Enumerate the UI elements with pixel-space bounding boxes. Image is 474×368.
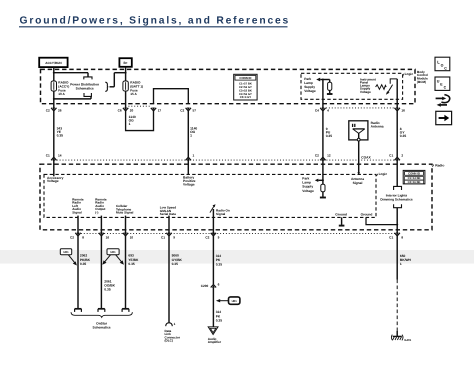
svg-text:Ground: Ground — [335, 212, 347, 216]
connector BCM exit C4 pin 4 — [315, 108, 329, 113]
svg-text:1: 1 — [129, 122, 131, 126]
svg-text:57: 57 — [193, 109, 197, 113]
wire: GMLAN serial data 5060 to DLC — [168, 236, 170, 323]
svg-text:17: 17 — [158, 109, 162, 113]
svg-text:0.35: 0.35 — [216, 262, 223, 266]
svg-text:(-): (-) — [95, 211, 98, 215]
wire: park lamp supply from BCM down — [322, 80, 324, 108]
connector radio exit pin 10 — [123, 233, 134, 240]
wire: branch ACCY to Power Distribution reference (top) — [53, 72, 88, 77]
audio amplifier symbol (nested triangles) — [208, 327, 218, 335]
wire: branch ACCY to Power Distribution reference (bottom) — [53, 97, 91, 100]
hotlink tag UE1 (middle) with pointers to 2061 and 693 wires — [102, 249, 124, 265]
wire: B+ feed down through RADIO (BATT 1) fuse — [125, 67, 127, 108]
reference: Interior Lights Dimming Schematics (corner brackets) — [380, 186, 412, 207]
svg-text:1: 1 — [174, 322, 176, 326]
connector BCM exit pin 16 — [395, 108, 406, 113]
ground G401 symbol — [391, 331, 411, 342]
svg-text:C1: C1 — [161, 236, 165, 240]
svg-text:9: 9 — [218, 236, 220, 240]
svg-text:1: 1 — [190, 134, 192, 138]
radio antenna box with antenna symbol — [349, 121, 368, 141]
svg-text:0.35: 0.35 — [326, 134, 333, 138]
wire: dimming input to Interior Lights Dimming reference — [396, 160, 398, 186]
wire stubs from radio labels to bottom connector row — [77, 216, 79, 234]
svg-text:Serial Data: Serial Data — [160, 212, 176, 216]
svg-text:0.35: 0.35 — [80, 262, 87, 266]
radio pin label: Radio On Signal with output arrow — [210, 204, 230, 216]
connector radio entry pin 1 — [186, 154, 195, 161]
wire: from dimming reference down to ground junction — [396, 208, 398, 234]
svg-text:UE1: UE1 — [232, 300, 238, 303]
svg-text:Radio: Radio — [435, 163, 444, 167]
connector radio exit C2 pin 8 — [70, 233, 84, 240]
svg-text:0.35: 0.35 — [216, 318, 223, 322]
svg-text:4: 4 — [327, 109, 329, 113]
wire: radio ground 650 BK/WH (solid then dashed) — [396, 236, 398, 331]
svg-text:C2: C2 — [315, 154, 319, 158]
hotlink tag UE1 (right) with pointer to 314 wire — [216, 297, 240, 304]
wire: remote radio audio output 2061 to OnStar — [100, 236, 102, 308]
svg-text:Logic: Logic — [405, 72, 414, 76]
svg-text:6: 6 — [218, 283, 220, 287]
icon: forward arrow box — [436, 111, 452, 124]
radio connector dotted face (bottom) — [78, 233, 397, 235]
svg-text:C2: C2 — [46, 109, 50, 113]
svg-text:C2: C2 — [70, 236, 74, 240]
svg-text:Logic: Logic — [379, 172, 388, 176]
reference: Power Distribution Schematics (corner brackets) — [70, 77, 99, 97]
svg-text:0.35: 0.35 — [57, 134, 64, 138]
svg-text:Amplifier: Amplifier — [208, 340, 222, 344]
radio Logic label — [377, 172, 388, 176]
svg-text:B+: B+ — [124, 61, 128, 65]
svg-text:C: C — [444, 66, 447, 70]
svg-text:C1: C1 — [46, 154, 50, 158]
svg-text:UE1: UE1 — [110, 251, 116, 254]
svg-text:8: 8 — [82, 236, 84, 240]
wire: radio on signal 314 upper half — [212, 236, 214, 284]
icon: LOC hotlink box — [435, 57, 450, 70]
svg-text:8: 8 — [401, 236, 403, 240]
svg-text:Signal: Signal — [216, 212, 225, 216]
svg-text:0.35: 0.35 — [172, 262, 179, 266]
connector radio entry C2 pin 12 — [315, 154, 331, 161]
wire: panel lamps dimming from BCM down — [396, 79, 398, 108]
connector fuse block exit pin 17 — [151, 108, 162, 113]
wire: cellular mute 693 to OnStar — [125, 236, 127, 308]
DLC terminal (female bell) pin 1 — [166, 322, 176, 326]
svg-text:C2=16 BK: C2=16 BK — [408, 181, 421, 184]
wire: 1140 OG external U-loop pin 20 to pin 17 — [126, 111, 154, 131]
svg-text:0.35: 0.35 — [400, 134, 407, 138]
connector fuse block exit C2 pin 26 — [46, 108, 62, 113]
connector radio exit pin 16 — [99, 233, 110, 240]
radio logic inner dashed box — [44, 174, 376, 217]
OnStar Schematics underbrace — [71, 312, 132, 317]
svg-text:C6: C6 — [118, 109, 122, 113]
svg-text:COAX: COAX — [361, 156, 371, 160]
wire: radio on signal 314 lower half to amplifier — [212, 288, 214, 327]
svg-text:UE1: UE1 — [63, 251, 69, 254]
svg-text:15 A: 15 A — [130, 92, 137, 96]
fuse RADIO (ACCY) 10 A — [51, 81, 69, 97]
page title: Ground/Powers, Signals, and References — [19, 16, 290, 27]
svg-text:(BCM): (BCM) — [417, 80, 426, 84]
svg-text:G401: G401 — [404, 338, 411, 342]
svg-text:O: O — [441, 63, 444, 67]
dotted connector face of BCM (C4) — [326, 107, 394, 109]
svg-text:16: 16 — [401, 109, 405, 113]
fuse block internal link pin 17 to pin 57 (inverted U) — [154, 89, 189, 104]
OnStar connector terminals (3 staples) — [75, 309, 82, 312]
radio internal Ground (left) with chassis bar — [335, 212, 347, 225]
svg-text:C4: C4 — [315, 109, 319, 113]
brace link from Power Distribution reference to B+ feed — [105, 72, 126, 92]
svg-text:1: 1 — [400, 262, 402, 266]
svg-text:26: 26 — [58, 109, 62, 113]
svg-text:Voltage: Voltage — [302, 189, 314, 193]
connector radio entry C1 pin 2 — [389, 154, 403, 161]
svg-text:Voltage: Voltage — [183, 182, 195, 186]
svg-text:Antenna: Antenna — [371, 125, 384, 129]
radio CONN ID table — [403, 170, 425, 184]
svg-text:C1=14 BK: C1=14 BK — [408, 177, 421, 180]
svg-text:C1: C1 — [389, 154, 393, 158]
dotted connector face between pins 20 and 17 — [128, 105, 150, 107]
connector fuse block exit C2 pin 57 — [180, 108, 196, 113]
svg-text:10 A: 10 A — [58, 92, 65, 96]
BCM inner function dashed box — [301, 73, 403, 99]
radio outer dashed box — [40, 164, 432, 230]
svg-text:Voltage: Voltage — [360, 90, 371, 94]
ACCY/RUN feed box — [39, 58, 67, 67]
svg-text:Signal: Signal — [72, 211, 81, 215]
radio park lamp input: arrow, resistor to ground — [315, 160, 326, 197]
instrument panel fuse block / BCM outer dashed box — [41, 69, 416, 103]
svg-text:Voltage: Voltage — [47, 179, 59, 183]
svg-text:Mute Signal: Mute Signal — [116, 211, 134, 215]
svg-text:2: 2 — [401, 154, 403, 158]
svg-text:Signal: Signal — [353, 181, 363, 185]
wire: remote radio left audio 2062 to OnStar — [77, 236, 79, 308]
connector radio entry C1 pin 14 — [46, 154, 62, 161]
svg-text:1: 1 — [193, 154, 195, 158]
icon: jump/reroute arrows — [436, 95, 450, 107]
svg-text:20: 20 — [130, 109, 134, 113]
B+ feed box — [119, 58, 131, 67]
svg-text:Dimming Schematics: Dimming Schematics — [380, 198, 412, 202]
wire: coax antenna lead into radio — [357, 141, 360, 175]
svg-text:0.35: 0.35 — [104, 288, 111, 292]
svg-text:9: 9 — [173, 236, 175, 240]
wire: ACCY/RUN feed down through RADIO (ACCY) fuse — [53, 67, 55, 108]
svg-text:12: 12 — [327, 154, 331, 158]
svg-text:C200: C200 — [201, 284, 209, 288]
svg-text:C5=4 GY: C5=4 GY — [240, 96, 252, 99]
svg-text:C2: C2 — [180, 109, 184, 113]
svg-text:(DLC): (DLC) — [165, 339, 173, 343]
fuse RADIO (BATT 1) 15 A — [123, 81, 143, 97]
connector radio exit C2 pin 9 — [205, 233, 219, 240]
svg-text:Schematics: Schematics — [76, 87, 94, 91]
wire stub: accessory voltage inside radio — [53, 160, 55, 176]
svg-text:C2: C2 — [205, 236, 209, 240]
connector radio exit C1 pin 8 — [389, 233, 403, 240]
wire stub: battery positive inside radio — [187, 160, 189, 174]
gray highlight band across page — [0, 250, 474, 264]
CONN ID table (fuse block) — [234, 74, 257, 100]
svg-text:CONN ID: CONN ID — [408, 171, 420, 175]
radio internal Ground (right) routed to C1-8 — [361, 212, 398, 224]
wire: accessory voltage 343 YE to radio — [53, 111, 55, 158]
wire: park lamp supply 9 PU to radio — [322, 111, 324, 158]
svg-text:10: 10 — [130, 236, 134, 240]
svg-text:Schematics: Schematics — [93, 325, 111, 329]
svg-text:Ground: Ground — [361, 212, 373, 216]
BCM park lamp output symbol (arrow + pull-up resistor) — [316, 78, 332, 94]
connector fuse block exit C6 pin 20 — [118, 108, 134, 113]
in-line connector C200 pin 6 — [201, 283, 220, 288]
svg-text:0.35: 0.35 — [128, 262, 135, 266]
svg-text:Ground/Powers, Signals, and Re: Ground/Powers, Signals, and References — [20, 16, 291, 27]
wire: battery positive 1140 OG to radio — [187, 111, 189, 158]
wire: panel dimming 8 GY to radio — [396, 111, 398, 158]
connector radio exit C1 pin 9 — [161, 233, 175, 240]
svg-text:ACCY/RUN: ACCY/RUN — [45, 61, 62, 65]
svg-text:Voltage: Voltage — [304, 89, 316, 93]
svg-text:14: 14 — [58, 154, 62, 158]
BCM Logic label — [403, 72, 414, 76]
hotlink tag UE1 (left) with pointer to 2062 wire — [60, 249, 77, 266]
icon: UEC hotlink box — [435, 77, 450, 90]
radio connector dotted face (top) — [54, 159, 397, 161]
BCM dimmer symbol (resistor + wiper) — [376, 79, 398, 95]
svg-text:C1: C1 — [389, 236, 393, 240]
svg-text:16: 16 — [106, 236, 110, 240]
svg-text:CONN ID: CONN ID — [239, 76, 251, 80]
Radio box name label — [432, 163, 444, 167]
